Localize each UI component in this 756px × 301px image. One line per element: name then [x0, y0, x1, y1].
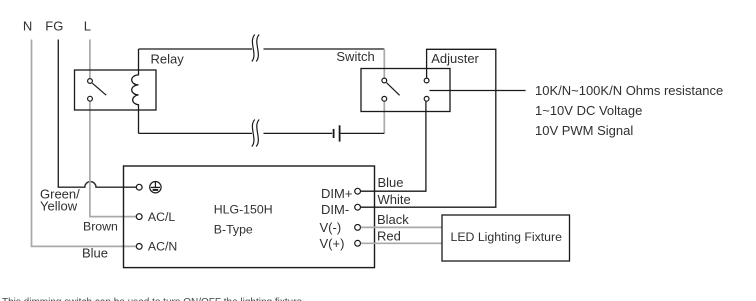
svg-text:White: White: [378, 192, 411, 207]
svg-text:Black: Black: [377, 212, 409, 227]
svg-text:LED Lighting Fixture: LED Lighting Fixture: [451, 230, 563, 244]
pin DIM- circle: [355, 204, 361, 210]
wire L lower segment (gray, from relay contact down then right to AC/L pin): [90, 101, 136, 217]
LED lighting fixture box: [442, 215, 570, 261]
pin AC/N circle: [136, 244, 142, 250]
svg-text:Switch: Switch: [336, 49, 374, 64]
svg-text:Adjuster: Adjuster: [431, 51, 479, 66]
svg-text:B-Type: B-Type: [214, 222, 253, 236]
svg-text:HLG-150H: HLG-150H: [214, 202, 273, 216]
pin AC/L circle: [136, 214, 142, 220]
pin DIM+ circle: [355, 188, 361, 194]
svg-text:Brown: Brown: [83, 220, 118, 234]
battery BT1 short plate: [333, 129, 335, 138]
svg-text:1~10V DC Voltage: 1~10V DC Voltage: [535, 103, 642, 118]
switch box: [361, 69, 450, 112]
wire bottom (relay coil to battery to switch, with break gap): [139, 132, 385, 134]
pin PE circle: [136, 184, 142, 190]
svg-text:AC/L: AC/L: [148, 210, 175, 224]
adjuster terminal lower circle: [424, 96, 429, 101]
break symbol top wire: [252, 35, 259, 62]
switch contact upper circle: [382, 78, 387, 83]
svg-text:10K/N~100K/N Ohms resistance: 10K/N~100K/N Ohms resistance: [535, 83, 723, 98]
relay contact lower circle: [88, 96, 93, 101]
pin V(+) circle: [355, 240, 361, 246]
wire switch drop lower (gray): [383, 101, 385, 133]
protective earth symbol: [150, 182, 161, 193]
relay contact arm: [92, 83, 106, 95]
svg-text:DIM+: DIM+: [321, 186, 352, 201]
wire DIM+ blue (right then up to adjuster lower terminal): [360, 101, 426, 191]
svg-text:V(+): V(+): [320, 236, 345, 251]
adjuster terminal upper circle: [424, 78, 429, 83]
wire V(+) red output (gray stroke): [361, 242, 442, 244]
svg-text:N: N: [23, 18, 32, 33]
relay contact upper circle: [88, 79, 93, 84]
wire annotation pointer: [430, 90, 526, 92]
battery BT1 long plate: [339, 125, 341, 141]
wire N (AC neutral input, gray, down then right to AC/N pin): [32, 40, 137, 247]
svg-text:This dimming switch can be use: This dimming switch can be used to turn …: [2, 297, 303, 301]
svg-text:AC/N: AC/N: [148, 240, 177, 254]
break symbol bottom wire: [252, 120, 259, 147]
relay box: [75, 70, 157, 110]
svg-text:Red: Red: [377, 228, 401, 243]
switch contact arm: [387, 83, 400, 96]
switch contact lower circle: [382, 96, 387, 101]
svg-text:V(-): V(-): [320, 220, 342, 235]
power supply U1 box: [124, 166, 375, 268]
svg-text:Blue: Blue: [82, 245, 108, 260]
relay coil L1: [132, 49, 139, 133]
svg-text:FG: FG: [45, 18, 63, 33]
wire L upper segment (line input, gray, down to relay contact): [89, 40, 91, 79]
wire V(-) black output (gray stroke): [361, 226, 442, 228]
wire top (relay coil to switch, with break gap): [139, 48, 385, 50]
svg-text:Blue: Blue: [378, 175, 404, 190]
wire switch drop upper (gray): [383, 49, 385, 78]
wire adjuster loop (upper terminal up, across, down right side to DIM- white wire): [360, 49, 495, 207]
wire FG (ground input, down then right with hop over L wire to PE pin): [58, 40, 136, 188]
svg-text:Relay: Relay: [151, 52, 185, 67]
svg-text:DIM-: DIM-: [321, 202, 349, 217]
svg-text:Yellow: Yellow: [40, 199, 78, 214]
svg-text:10V PWM Signal: 10V PWM Signal: [535, 123, 633, 138]
svg-text:L: L: [84, 18, 91, 33]
pin V(-) circle: [355, 225, 361, 231]
